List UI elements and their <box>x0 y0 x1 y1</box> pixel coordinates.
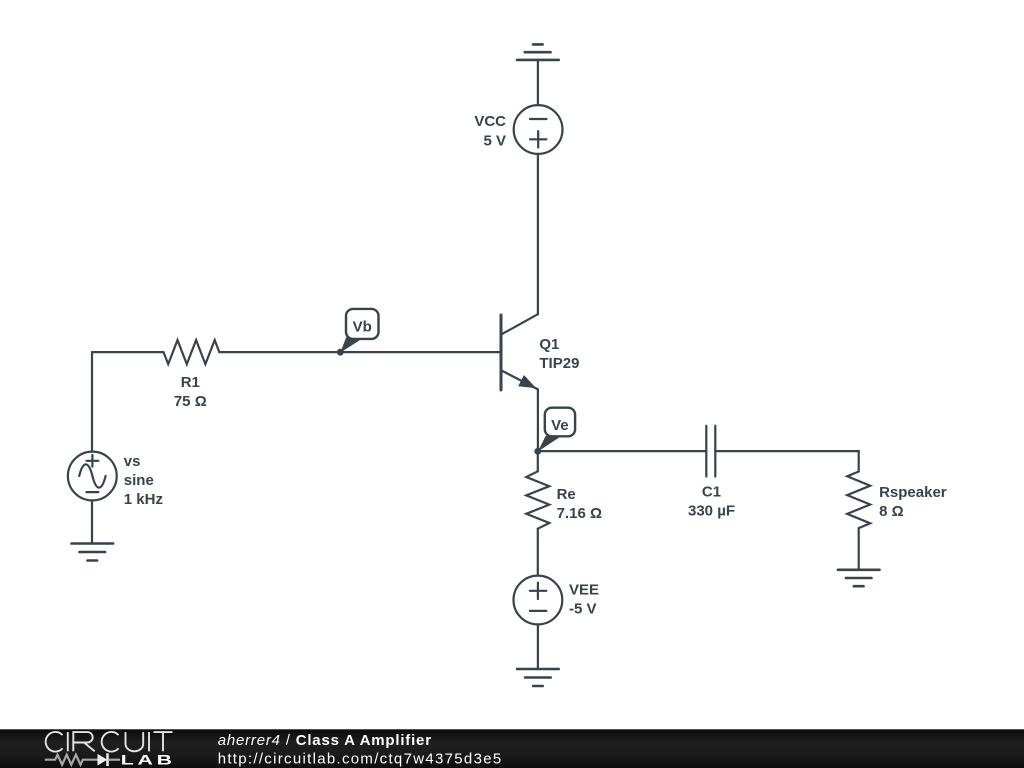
svg-text:LAB: LAB <box>121 752 176 768</box>
label Re 7.16ohm <box>557 486 602 522</box>
svg-text:sine: sine <box>124 472 154 489</box>
transistor Q1 <box>501 314 538 390</box>
svg-text:TIP29: TIP29 <box>539 355 579 372</box>
logo diode triangle <box>98 754 108 766</box>
footer bar <box>0 729 1024 768</box>
logo LAB <box>121 752 176 768</box>
label R1 75ohm <box>174 374 207 410</box>
wire Q1 emitter to node Ve <box>537 389 539 451</box>
svg-text:Re: Re <box>557 486 576 503</box>
svg-text:VCC: VCC <box>474 113 506 130</box>
svg-text:-5 V: -5 V <box>569 601 597 618</box>
label vs sine 1kHz <box>124 453 163 508</box>
svg-text:5 V: 5 V <box>483 132 506 149</box>
wire node Ve to Re <box>537 451 539 471</box>
svg-text:75 Ω: 75 Ω <box>174 393 207 410</box>
label VCC 5V <box>474 113 506 150</box>
svg-text:Ve: Ve <box>551 417 569 434</box>
ground (below VEE) <box>517 669 559 686</box>
node Ve junction dot <box>534 448 541 455</box>
svg-text:1 kHz: 1 kHz <box>124 491 163 508</box>
ground (top, inverted) <box>517 44 559 60</box>
svg-text:Rspeaker: Rspeaker <box>879 484 947 501</box>
flag Ve <box>538 408 575 452</box>
wire vs to ground <box>91 500 93 543</box>
wire VEE to ground <box>537 624 539 669</box>
capacitor C1 <box>706 426 715 477</box>
resistor Rspeaker <box>847 472 870 529</box>
ground (below vs) <box>72 544 114 561</box>
voltage source vs (sine) <box>68 452 117 501</box>
svg-text:8 Ω: 8 Ω <box>879 503 904 520</box>
svg-text:Vb: Vb <box>353 319 372 336</box>
wire node Ve to C1 <box>538 450 707 452</box>
svg-text:aherrer4 / Class A Amplifier: aherrer4 / Class A Amplifier <box>218 732 432 749</box>
logo CIRCUIT wordmark <box>46 732 173 752</box>
wire Rspeaker to ground <box>858 528 860 570</box>
resistor Re <box>526 471 549 528</box>
svg-text:Q1: Q1 <box>539 336 559 353</box>
wire R1 to Q1 base <box>219 351 500 353</box>
label VEE -5V <box>569 582 599 618</box>
label Q1 TIP29 <box>539 336 579 372</box>
wire vs to R1 (left column + top run) <box>92 352 164 452</box>
label C1 330uF <box>688 484 735 520</box>
ground (below Rspeaker) <box>838 570 880 586</box>
wire ground to VCC <box>537 60 539 105</box>
wire VCC to Q1 collector <box>537 154 539 314</box>
svg-text:C1: C1 <box>702 484 721 501</box>
svg-text:http://circuitlab.com/ctq7w437: http://circuitlab.com/ctq7w4375d3e5 <box>218 751 503 768</box>
svg-text:330 µF: 330 µF <box>688 503 735 520</box>
svg-text:R1: R1 <box>181 374 200 391</box>
voltage source VCC <box>514 105 563 154</box>
label Rspeaker 8ohm <box>879 484 947 520</box>
svg-text:7.16 Ω: 7.16 Ω <box>557 505 602 522</box>
flag Vb <box>340 309 378 353</box>
wire C1 to Rspeaker <box>715 451 858 471</box>
wire Re to VEE <box>537 529 539 576</box>
node Vb junction dot <box>337 349 344 356</box>
svg-text:vs: vs <box>124 453 141 470</box>
voltage source VEE <box>514 576 563 625</box>
logo resistor-diode line <box>45 753 120 766</box>
svg-text:VEE: VEE <box>569 582 599 599</box>
resistor R1 <box>164 340 220 364</box>
